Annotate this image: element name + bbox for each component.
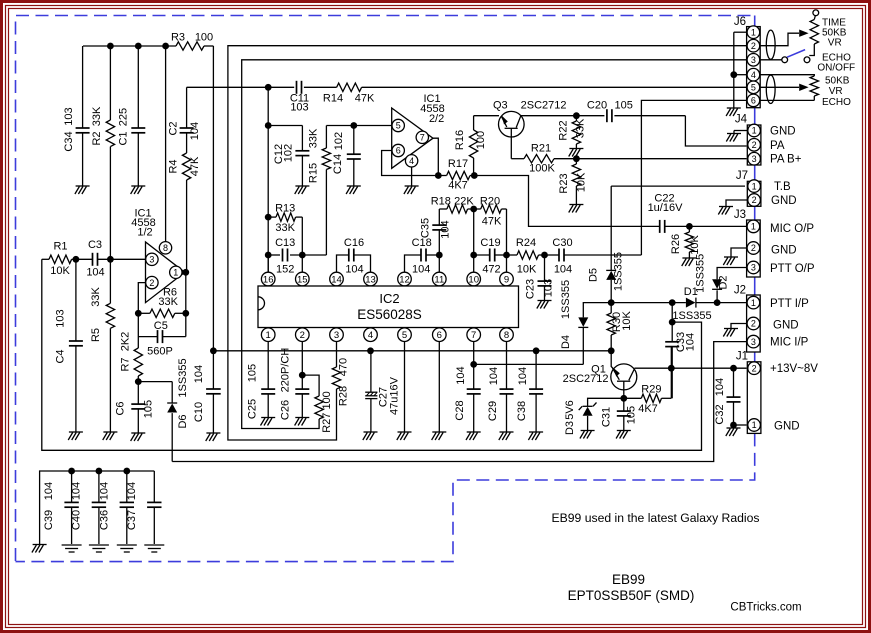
svg-text:10K: 10K — [689, 235, 701, 255]
svg-text:EB99: EB99 — [612, 572, 645, 587]
svg-text:2: 2 — [300, 330, 305, 341]
capacitor C23 — [544, 255, 546, 281]
svg-text:47K: 47K — [355, 93, 375, 105]
svg-text:2: 2 — [752, 363, 757, 373]
svg-text:104: 104 — [455, 366, 467, 384]
svg-text:10: 10 — [468, 274, 479, 285]
svg-text:105: 105 — [626, 406, 638, 424]
svg-text:2SC2712: 2SC2712 — [521, 100, 567, 112]
svg-text:C39: C39 — [43, 510, 55, 530]
svg-text:VR: VR — [828, 37, 842, 48]
svg-text:3: 3 — [752, 154, 757, 164]
arrow ECHO wiper — [799, 84, 808, 91]
svg-text:220P/CH: 220P/CH — [280, 348, 292, 393]
svg-text:104: 104 — [440, 220, 452, 238]
svg-text:33K: 33K — [575, 118, 587, 138]
wire Q1 collector +13V row — [634, 367, 746, 369]
svg-text:12: 12 — [399, 274, 410, 285]
wire top bus to R3 — [83, 45, 176, 47]
wire Q3 base row R21 — [511, 158, 524, 160]
svg-text:1SS355: 1SS355 — [613, 252, 625, 291]
svg-text:3: 3 — [751, 55, 756, 65]
svg-text:C5: C5 — [154, 320, 168, 332]
svg-text:EB99 used in the latest Galaxy: EB99 used in the latest Galaxy Radios — [552, 511, 760, 525]
svg-text:+13V~8V: +13V~8V — [770, 363, 818, 375]
svg-text:100: 100 — [475, 131, 487, 149]
svg-text:3: 3 — [149, 255, 154, 265]
svg-text:C14: C14 — [332, 154, 344, 174]
svg-text:4K7: 4K7 — [448, 180, 468, 192]
wire IC2 pin5 ground — [404, 342, 406, 432]
svg-text:104: 104 — [43, 482, 55, 500]
svg-text:6: 6 — [396, 146, 401, 156]
wire op2 pin4 ground lead — [411, 167, 413, 186]
svg-text:C20: C20 — [587, 100, 607, 112]
resistor R22 — [572, 121, 580, 144]
resistor R14 — [337, 83, 362, 91]
diode D2 1SS355 — [717, 268, 747, 280]
svg-text:IC2: IC2 — [379, 291, 399, 306]
svg-text:R20: R20 — [480, 196, 500, 208]
svg-text:1u/16V: 1u/16V — [648, 202, 684, 214]
wire op1 feedback — [138, 283, 145, 348]
svg-text:ES56028S: ES56028S — [357, 307, 422, 322]
svg-text:R14: R14 — [323, 93, 343, 105]
svg-text:ON/OFF: ON/OFF — [817, 62, 855, 73]
resistor R6 — [138, 312, 150, 314]
svg-text:3: 3 — [334, 330, 339, 341]
svg-text:33K: 33K — [275, 222, 295, 234]
svg-text:C37: C37 — [126, 510, 138, 530]
ground J3 pin2 — [724, 256, 738, 258]
svg-text:VR: VR — [829, 86, 843, 97]
svg-text:PTT I/P: PTT I/P — [770, 298, 809, 310]
svg-text:3: 3 — [751, 263, 756, 273]
svg-text:15: 15 — [297, 274, 308, 285]
capacitor C1 — [137, 46, 139, 128]
junction dots top bus — [107, 43, 114, 50]
arrow TIME wiper — [799, 30, 808, 37]
connector J3 — [747, 220, 761, 277]
wire D1 to J2 pin1 — [717, 302, 747, 304]
resistor R20 — [474, 208, 481, 210]
svg-text:1: 1 — [752, 420, 757, 430]
svg-text:102: 102 — [283, 144, 295, 162]
svg-text:47K: 47K — [189, 156, 201, 176]
wire op2 input y125 — [326, 125, 391, 127]
wire J6 pin4 to pot ECHO top — [760, 75, 814, 76]
ground J4 pin1 — [727, 133, 741, 135]
capacitor C10 — [212, 351, 214, 389]
resistor R7 — [134, 348, 142, 376]
wire pin11 lead — [438, 255, 440, 272]
IC2 bottom pin circles — [261, 328, 275, 342]
svg-text:104: 104 — [345, 263, 363, 275]
capacitor C29 — [500, 389, 514, 394]
svg-text:5: 5 — [751, 83, 756, 93]
svg-text:103: 103 — [55, 309, 67, 327]
ground C26 — [295, 417, 309, 419]
svg-text:7: 7 — [420, 133, 425, 143]
IC U2 ES56028S body — [258, 286, 519, 328]
wire J6 pin3 echo loop via R27 — [242, 60, 747, 429]
svg-text:R22: R22 — [558, 120, 570, 140]
resistor R17 — [438, 175, 446, 177]
svg-text:9: 9 — [504, 274, 509, 285]
svg-text:5V6: 5V6 — [564, 400, 576, 420]
svg-text:10K: 10K — [50, 265, 70, 277]
wire J6 pin6 line — [641, 100, 746, 255]
svg-text:C25: C25 — [247, 399, 259, 419]
svg-text:D6: D6 — [177, 414, 189, 428]
wire op2 output — [433, 138, 438, 175]
wire J6 pin1 ground rail — [734, 31, 747, 33]
svg-text:104: 104 — [685, 333, 697, 351]
connector J6 — [747, 27, 761, 108]
resistor R28 — [336, 342, 338, 368]
diode D3 zener 5V6 — [583, 405, 593, 407]
capacitor C12 — [295, 151, 309, 156]
wire D4 branch — [583, 303, 611, 318]
capacitor C4 — [75, 259, 77, 341]
capacitor C31 — [623, 398, 625, 411]
svg-text:C29: C29 — [487, 401, 499, 421]
wire R18R20 node down — [473, 209, 475, 255]
resistor R15 — [325, 126, 327, 149]
svg-text:10K: 10K — [517, 263, 537, 275]
svg-text:4: 4 — [409, 156, 414, 166]
capacitor C30 — [545, 254, 560, 256]
potentiometer 50KB VR ECHO — [810, 76, 818, 96]
wire MIC I/P to D6 — [172, 342, 746, 462]
svg-text:GND: GND — [774, 420, 800, 432]
connector J2 — [747, 295, 761, 352]
resistor R23 — [575, 159, 577, 164]
svg-text:C4: C4 — [55, 349, 67, 363]
capacitor C13 — [268, 254, 280, 256]
ground C14 — [347, 185, 361, 187]
svg-text:PA B+: PA B+ — [770, 154, 802, 166]
svg-text:100K: 100K — [529, 163, 555, 175]
svg-text:D2: D2 — [718, 275, 730, 289]
capacitor C34 — [82, 46, 84, 128]
op-amp IC1 2/2 — [392, 108, 433, 168]
wire IC2 pin8 lead — [506, 342, 508, 390]
svg-text:R3: R3 — [171, 32, 185, 44]
svg-text:1SS355: 1SS355 — [177, 358, 189, 397]
ground C36 — [117, 544, 137, 546]
svg-text:105: 105 — [247, 364, 259, 382]
capacitor C33 — [665, 342, 679, 347]
ground J2 pin2 — [724, 328, 738, 330]
capacitor C37 — [153, 471, 155, 502]
op-amp IC1 1/2 — [146, 242, 185, 303]
ground C10 — [206, 432, 220, 434]
ground D3 — [581, 430, 595, 432]
ground C38 — [529, 431, 543, 433]
svg-text:2: 2 — [752, 140, 757, 150]
wire J7 pin2 ground — [726, 200, 747, 206]
wire Q3 collector to C20 — [521, 115, 605, 117]
capacitor C11 — [297, 81, 302, 94]
ground C32 — [727, 427, 741, 429]
capacitor C35 — [438, 209, 440, 225]
capacitor C32 — [733, 368, 735, 397]
wire PTT I/P row — [611, 302, 686, 304]
resistor R5 — [109, 259, 111, 303]
svg-text:GND: GND — [770, 125, 796, 137]
svg-text:R21: R21 — [531, 143, 551, 155]
svg-text:1/2: 1/2 — [137, 227, 152, 239]
svg-text:2: 2 — [149, 278, 154, 288]
svg-text:1: 1 — [266, 330, 271, 341]
wire C33 branch — [671, 303, 673, 342]
svg-text:103: 103 — [63, 107, 75, 125]
svg-text:MIC O/P: MIC O/P — [770, 223, 814, 235]
svg-text:C6: C6 — [115, 401, 127, 415]
wire pin10 pin9 leads — [473, 255, 475, 272]
svg-text:104: 104 — [714, 378, 726, 396]
node C11 branch — [265, 84, 272, 91]
ground R22 — [569, 148, 583, 150]
svg-text:1: 1 — [751, 298, 756, 308]
ground J6 — [727, 107, 741, 109]
svg-text:EPT0SSB50F (SMD): EPT0SSB50F (SMD) — [568, 588, 695, 603]
ground IC2 pin6 — [432, 431, 446, 433]
resistor R3 — [176, 42, 204, 50]
svg-text:R24: R24 — [516, 237, 536, 249]
capacitor C6 — [137, 382, 139, 405]
wire IC1 pin8 supply — [165, 46, 167, 242]
wire IC2 pin6 ground — [438, 342, 440, 432]
ground R5 — [103, 431, 117, 433]
diode D1 1SS355 — [686, 298, 696, 308]
capacitor C27 electrolytic — [370, 351, 372, 392]
svg-text:C35: C35 — [419, 218, 431, 238]
svg-text:R13: R13 — [275, 202, 295, 214]
svg-text:47u16V: 47u16V — [389, 376, 401, 415]
svg-text:R7: R7 — [120, 357, 132, 371]
svg-text:C23: C23 — [525, 279, 537, 299]
wire D4 row y364 — [474, 363, 584, 365]
svg-text:T.B: T.B — [774, 181, 791, 193]
svg-text:C13: C13 — [275, 237, 295, 249]
svg-text:2/2: 2/2 — [429, 113, 444, 125]
svg-text:R16: R16 — [454, 130, 466, 150]
capacitor C19 — [474, 254, 490, 256]
ground C34 — [76, 185, 90, 187]
svg-text:100: 100 — [195, 32, 213, 44]
svg-text:GND: GND — [771, 245, 797, 257]
svg-text:8: 8 — [504, 330, 509, 341]
svg-text:103: 103 — [543, 279, 555, 297]
svg-text:4K7: 4K7 — [638, 403, 658, 415]
resistor R24 — [507, 254, 518, 256]
potentiometer TIME 50KB VR — [813, 10, 819, 16]
svg-text:104: 104 — [488, 367, 500, 385]
wire VDD bus y351 — [213, 350, 611, 352]
svg-text:7: 7 — [471, 330, 476, 341]
wire J6 pin6 to pot bottom — [760, 99, 814, 101]
wire J1 pin1 gnd — [734, 424, 747, 426]
svg-text:R27 100: R27 100 — [321, 391, 333, 433]
svg-text:104: 104 — [189, 122, 201, 140]
capacitor C14 — [353, 126, 355, 155]
ground C29 — [500, 431, 514, 433]
svg-text:C18: C18 — [412, 237, 432, 249]
svg-text:5: 5 — [396, 121, 401, 131]
svg-text:11: 11 — [434, 274, 444, 285]
svg-text:D5: D5 — [588, 268, 600, 282]
svg-text:J6: J6 — [734, 16, 746, 28]
svg-text:C1: C1 — [118, 131, 130, 145]
ground C25 — [261, 417, 275, 419]
svg-text:C10: C10 — [193, 402, 205, 422]
svg-text:C28: C28 — [454, 400, 466, 420]
svg-text:GND: GND — [771, 195, 797, 207]
ground C31 — [617, 430, 631, 432]
svg-text:C34: C34 — [63, 131, 75, 151]
svg-text:470: 470 — [338, 358, 350, 376]
svg-text:104: 104 — [554, 263, 572, 275]
ground C27 — [364, 431, 378, 433]
capacitor C22 — [660, 220, 665, 233]
svg-text:152: 152 — [276, 263, 294, 275]
svg-text:22K: 22K — [454, 196, 474, 208]
svg-text:104: 104 — [126, 482, 138, 500]
svg-text:C19: C19 — [480, 237, 500, 249]
wire op2 feedback — [382, 151, 439, 176]
cable oval J6 upper — [766, 30, 775, 59]
wire C16 pins14-13 — [337, 255, 349, 272]
svg-text:R4: R4 — [168, 159, 180, 173]
svg-text:CBTricks.com: CBTricks.com — [730, 602, 801, 614]
wire C33 node to R1 loop — [42, 259, 702, 450]
capacitor C2 / resistor R4 chain — [186, 87, 188, 128]
svg-text:J3: J3 — [734, 209, 746, 221]
wire J2 pin2 ground — [731, 324, 747, 329]
svg-text:J4: J4 — [735, 114, 748, 126]
resistor R27 — [302, 375, 319, 396]
wire C39 bank bus — [40, 471, 155, 544]
svg-text:4: 4 — [751, 70, 756, 80]
diode D4 1SS355 — [578, 317, 588, 327]
ground C40 — [89, 544, 109, 546]
diode D6 1SS355 — [171, 382, 173, 403]
svg-text:225: 225 — [118, 108, 130, 126]
svg-text:6: 6 — [751, 96, 756, 106]
wire R17 node to C22 — [474, 176, 659, 227]
svg-text:104: 104 — [70, 482, 82, 500]
svg-text:8: 8 — [163, 243, 168, 253]
capacitor C38 — [535, 351, 537, 389]
svg-text:33K: 33K — [308, 128, 320, 148]
svg-text:33K: 33K — [90, 287, 102, 307]
svg-text:D3: D3 — [564, 421, 576, 435]
wire D3 branch — [588, 398, 624, 406]
svg-text:2K2: 2K2 — [120, 332, 132, 352]
wire Q1 emitter from bus — [611, 351, 613, 368]
resistor R30 — [610, 303, 612, 313]
resistor R2 — [109, 46, 111, 120]
svg-text:1: 1 — [752, 181, 757, 191]
svg-text:R17: R17 — [448, 158, 468, 170]
wire R7 to D6 — [138, 381, 172, 383]
svg-text:2: 2 — [751, 41, 756, 51]
svg-text:104: 104 — [86, 267, 104, 279]
capacitor C28 — [473, 364, 475, 389]
svg-text:J7: J7 — [736, 170, 748, 182]
ground C39 — [62, 544, 82, 546]
wire op1 output node — [185, 271, 186, 273]
wire J4 pin1 ground — [734, 130, 747, 132]
IC2 top pin circles — [261, 272, 275, 286]
svg-text:50KB: 50KB — [825, 76, 850, 87]
svg-text:R5: R5 — [90, 328, 102, 342]
svg-text:1: 1 — [173, 268, 178, 278]
wire IC2 pin7 lead — [473, 342, 475, 365]
svg-text:33K: 33K — [158, 296, 178, 308]
svg-text:R1: R1 — [53, 241, 67, 253]
resistor R1 — [42, 258, 49, 260]
capacitor C18 — [405, 255, 422, 272]
svg-text:14: 14 — [331, 274, 342, 285]
capacitor C3 — [76, 258, 93, 260]
svg-text:560P: 560P — [147, 346, 173, 358]
svg-text:C26: C26 — [280, 400, 292, 420]
svg-text:104: 104 — [98, 482, 110, 500]
ground C23 — [538, 300, 552, 302]
wire R21 node to J4 pin3 — [576, 158, 746, 160]
ground J7 pin2 — [719, 206, 733, 208]
svg-text:C2: C2 — [168, 121, 180, 135]
svg-text:1: 1 — [751, 27, 756, 37]
svg-text:103: 103 — [290, 102, 308, 114]
wire R16 to Q3 emitter — [474, 115, 499, 117]
capacitor C5 — [138, 336, 157, 338]
svg-text:J2: J2 — [734, 285, 746, 297]
svg-text:2: 2 — [751, 319, 756, 329]
svg-text:33K: 33K — [91, 106, 103, 126]
ground C1 — [131, 185, 145, 187]
resistor R21 — [524, 155, 554, 163]
capacitor C39 — [71, 471, 73, 502]
svg-text:1SS355: 1SS355 — [672, 310, 711, 322]
svg-text:472: 472 — [482, 263, 500, 275]
svg-text:C38: C38 — [516, 401, 528, 421]
svg-text:1SS355: 1SS355 — [694, 254, 706, 293]
svg-text:C32: C32 — [714, 404, 726, 424]
svg-text:13: 13 — [365, 274, 376, 285]
ground R23 — [569, 204, 583, 206]
wire R20 down — [506, 209, 508, 255]
resistor R29 — [624, 397, 641, 399]
svg-text:10K: 10K — [576, 172, 588, 192]
blue dashed board outline — [16, 16, 755, 562]
ground C4 — [69, 431, 83, 433]
wire R3 to C10 line — [204, 45, 213, 47]
svg-text:105: 105 — [615, 100, 633, 112]
wire C13 pin15-16 leads — [267, 255, 269, 272]
wire C33 bottom to R29 corner — [670, 347, 672, 399]
svg-text:2: 2 — [751, 243, 756, 253]
svg-text:105: 105 — [143, 400, 155, 418]
svg-text:10K: 10K — [621, 311, 633, 331]
svg-text:1SS355: 1SS355 — [560, 280, 572, 319]
ground C37 — [144, 544, 164, 546]
svg-text:2: 2 — [752, 195, 757, 205]
ground C12 — [295, 185, 309, 187]
